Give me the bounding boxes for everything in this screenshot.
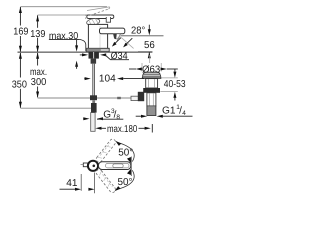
dashed lever -50 (down-right) xyxy=(95,168,117,193)
deck line xyxy=(18,51,153,53)
hose tail tube xyxy=(91,113,95,132)
pop-up waste plug cap xyxy=(142,72,161,78)
svg-text:169: 169 xyxy=(13,27,29,38)
waste centerline xyxy=(149,55,151,63)
svg-text:G1: G1 xyxy=(162,106,176,117)
svg-text:139: 139 xyxy=(30,29,46,40)
dimension 139 xyxy=(37,15,39,51)
flexible hose xyxy=(92,64,95,96)
dimension max.300 xyxy=(37,53,39,97)
svg-text:8: 8 xyxy=(116,114,120,121)
dashed lever +50 (up-right) xyxy=(95,138,117,163)
dim max.180 xyxy=(95,127,101,130)
solid lever (top view) xyxy=(99,162,131,170)
28 deg arrow xyxy=(148,25,150,30)
dim 104 xyxy=(84,78,86,80)
svg-text:28°: 28° xyxy=(131,26,145,37)
lower arc arrow xyxy=(116,170,134,189)
svg-text:G: G xyxy=(103,110,111,121)
svg-text:max.30: max.30 xyxy=(49,31,79,42)
dimension 169 xyxy=(19,7,21,52)
dimension 350 xyxy=(19,53,21,108)
upper arc arrow xyxy=(117,142,134,161)
extension line top (raised lever tip level) xyxy=(20,6,107,8)
spout tab xyxy=(83,163,88,167)
max.30 lower arrow xyxy=(75,61,78,67)
body circle xyxy=(88,161,98,171)
dim G3/8 xyxy=(83,118,85,120)
dim Ø34 arrows xyxy=(80,54,83,56)
extension line (closed lever top level) xyxy=(38,14,88,16)
dim G1 1/4 xyxy=(136,115,142,117)
aerator xyxy=(113,34,120,39)
shank nut xyxy=(89,52,99,59)
svg-text:max.180: max.180 xyxy=(107,124,138,135)
basin rim line xyxy=(121,35,164,37)
waste tailpiece xyxy=(147,93,156,106)
dim Ø63 xyxy=(141,63,143,72)
svg-text:40-53: 40-53 xyxy=(164,79,186,90)
waste thread xyxy=(147,106,156,116)
faucet body xyxy=(88,24,107,50)
svg-text:104: 104 xyxy=(99,74,116,85)
dim 40-53 xyxy=(161,77,178,79)
base plate xyxy=(87,48,110,51)
waste neck xyxy=(146,79,158,88)
lever hub (hatched ellipse) xyxy=(86,18,100,26)
svg-text:Ø63: Ø63 xyxy=(142,64,161,75)
shank tail xyxy=(91,59,97,64)
svg-text:50°: 50° xyxy=(118,177,133,188)
pop-up rod joint xyxy=(90,95,97,100)
svg-text:56: 56 xyxy=(144,40,155,51)
water jet arrow 1 xyxy=(114,38,121,45)
hose neck xyxy=(92,100,95,103)
svg-text:Ø34: Ø34 xyxy=(111,51,128,62)
dashed raised hub arc xyxy=(85,14,87,19)
svg-text:350: 350 xyxy=(12,79,28,90)
rod tick xyxy=(117,97,121,99)
350 reference line xyxy=(20,107,96,109)
raised lever (dashed) xyxy=(87,7,110,11)
waste seal xyxy=(143,88,160,93)
waste side pipe xyxy=(131,96,139,100)
water jet arrow 2 xyxy=(125,38,132,45)
lever blade (closed) xyxy=(87,15,114,19)
svg-text:41: 41 xyxy=(66,178,78,189)
svg-text:300: 300 xyxy=(31,77,47,88)
lever tip extension xyxy=(130,157,132,177)
hose nut G3/8 xyxy=(91,103,97,113)
horizontal pop-up rod / max.300 reference line xyxy=(38,97,138,99)
spout slab xyxy=(100,28,125,34)
svg-text:4: 4 xyxy=(182,110,186,117)
